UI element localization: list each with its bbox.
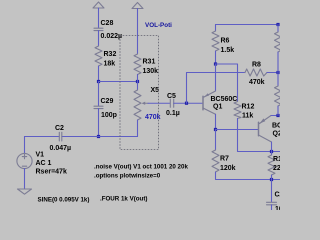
svg-text:SINE(0 0.095V 1k): SINE(0 0.095V 1k) xyxy=(38,196,90,203)
svg-text:R31: R31 xyxy=(143,59,156,66)
capacitor C5 xyxy=(170,99,173,107)
node junction xyxy=(276,71,279,74)
power flag pot xyxy=(132,3,143,9)
resistor edge top xyxy=(275,25,282,73)
node junction xyxy=(276,114,279,117)
wire riser xyxy=(187,73,246,104)
wire xyxy=(215,25,217,32)
node junction xyxy=(270,150,273,153)
svg-text:C23: C23 xyxy=(275,192,281,199)
svg-text:BC560C: BC560C xyxy=(211,96,238,103)
wire xyxy=(215,51,217,64)
resistor R10 edge xyxy=(268,152,275,180)
node junction xyxy=(276,23,279,26)
svg-text:22k: 22k xyxy=(273,165,280,172)
svg-text:Rser=47k: Rser=47k xyxy=(36,169,67,176)
svg-text:10µ: 10µ xyxy=(275,206,280,210)
svg-text:Q2: Q2 xyxy=(273,131,281,138)
svg-text:.FOUR 1k V(out): .FOUR 1k V(out) xyxy=(100,195,147,202)
svg-text:130k: 130k xyxy=(143,68,159,75)
svg-text:Q1: Q1 xyxy=(213,104,222,111)
node junction xyxy=(185,102,188,105)
wire down to R7 xyxy=(215,130,217,151)
svg-text:X5: X5 xyxy=(151,87,160,94)
svg-text:R32: R32 xyxy=(104,51,117,58)
dashed box VOL-Poti xyxy=(120,36,159,150)
transistor Q2 xyxy=(259,116,272,143)
wire R12 down xyxy=(238,119,281,152)
node junction xyxy=(97,80,100,83)
wire Q2 emitter xyxy=(271,115,278,117)
wire input rail xyxy=(25,136,60,138)
resistor R6 xyxy=(212,31,219,51)
wire xyxy=(137,75,139,91)
svg-text:470k: 470k xyxy=(249,79,265,86)
svg-text:.options plotwinsize=0: .options plotwinsize=0 xyxy=(94,173,161,180)
svg-text:C2: C2 xyxy=(55,125,64,132)
wire xyxy=(98,82,100,107)
resistor R8 xyxy=(245,69,267,76)
svg-text:VOL-Poti: VOL-Poti xyxy=(145,22,172,29)
power flag left xyxy=(93,2,104,8)
svg-text:AC 1: AC 1 xyxy=(36,160,52,167)
node junction xyxy=(214,128,217,131)
wire Q1 emitter xyxy=(215,64,217,91)
capacitor C2 xyxy=(59,132,62,141)
transistor Q1 xyxy=(203,91,216,114)
wire xyxy=(98,31,100,46)
svg-text:120k: 120k xyxy=(220,165,236,172)
wire wiper to C5 xyxy=(148,102,170,104)
capacitor C28 xyxy=(94,28,103,30)
wire jog to R12 xyxy=(216,64,238,102)
wire cap down xyxy=(271,180,273,203)
resistor R31 xyxy=(134,54,141,75)
svg-text:BC550C: BC550C xyxy=(272,123,280,130)
node junction xyxy=(97,135,100,138)
svg-text:0.047µ: 0.047µ xyxy=(50,145,72,152)
node junction xyxy=(270,178,273,181)
svg-text:18k: 18k xyxy=(104,61,116,68)
resistor R12 xyxy=(234,102,241,119)
svg-text:C29: C29 xyxy=(101,98,114,105)
capacitor C23 xyxy=(267,202,277,205)
svg-text:R10: R10 xyxy=(273,156,280,163)
svg-text:V1: V1 xyxy=(36,152,45,159)
svg-text:R7: R7 xyxy=(220,156,229,163)
wire bottom rail xyxy=(216,172,281,180)
svg-text:1.5k: 1.5k xyxy=(221,47,235,54)
node junction xyxy=(214,62,217,65)
wire base Q1 xyxy=(174,102,203,104)
node junction xyxy=(136,80,139,83)
wire xyxy=(271,205,273,210)
svg-text:.noise V(out) V1 oct 1001 20 2: .noise V(out) V1 oct 1001 20 20k xyxy=(94,164,188,171)
svg-text:0.1µ: 0.1µ xyxy=(166,110,180,117)
voltage source V1 xyxy=(24,137,26,154)
svg-text:100p: 100p xyxy=(101,112,117,119)
svg-text:0.022µ: 0.022µ xyxy=(101,33,123,40)
wire xyxy=(137,9,139,55)
svg-text:C5: C5 xyxy=(167,93,176,100)
potentiometer X5 xyxy=(134,90,148,120)
wire pot bottom xyxy=(137,120,139,137)
svg-text:R8: R8 xyxy=(252,61,261,68)
wire xyxy=(98,109,100,137)
resistor edge mid xyxy=(275,73,282,116)
ground xyxy=(18,189,32,194)
wire collector rail xyxy=(216,129,258,131)
wire xyxy=(267,72,278,74)
wire xyxy=(98,8,100,28)
resistor R7 xyxy=(212,150,219,172)
wire xyxy=(98,66,100,82)
wire Q2 collector xyxy=(271,142,273,152)
wire top rail xyxy=(216,24,279,26)
wire xyxy=(99,81,138,83)
svg-text:11k: 11k xyxy=(242,113,253,120)
svg-text:R6: R6 xyxy=(221,37,230,44)
capacitor C29 xyxy=(94,106,103,108)
wire Q1 collector xyxy=(215,114,217,129)
resistor R32 xyxy=(95,46,102,66)
svg-text:R12: R12 xyxy=(242,103,255,110)
svg-text:C28: C28 xyxy=(101,20,114,27)
wire xyxy=(24,169,26,189)
